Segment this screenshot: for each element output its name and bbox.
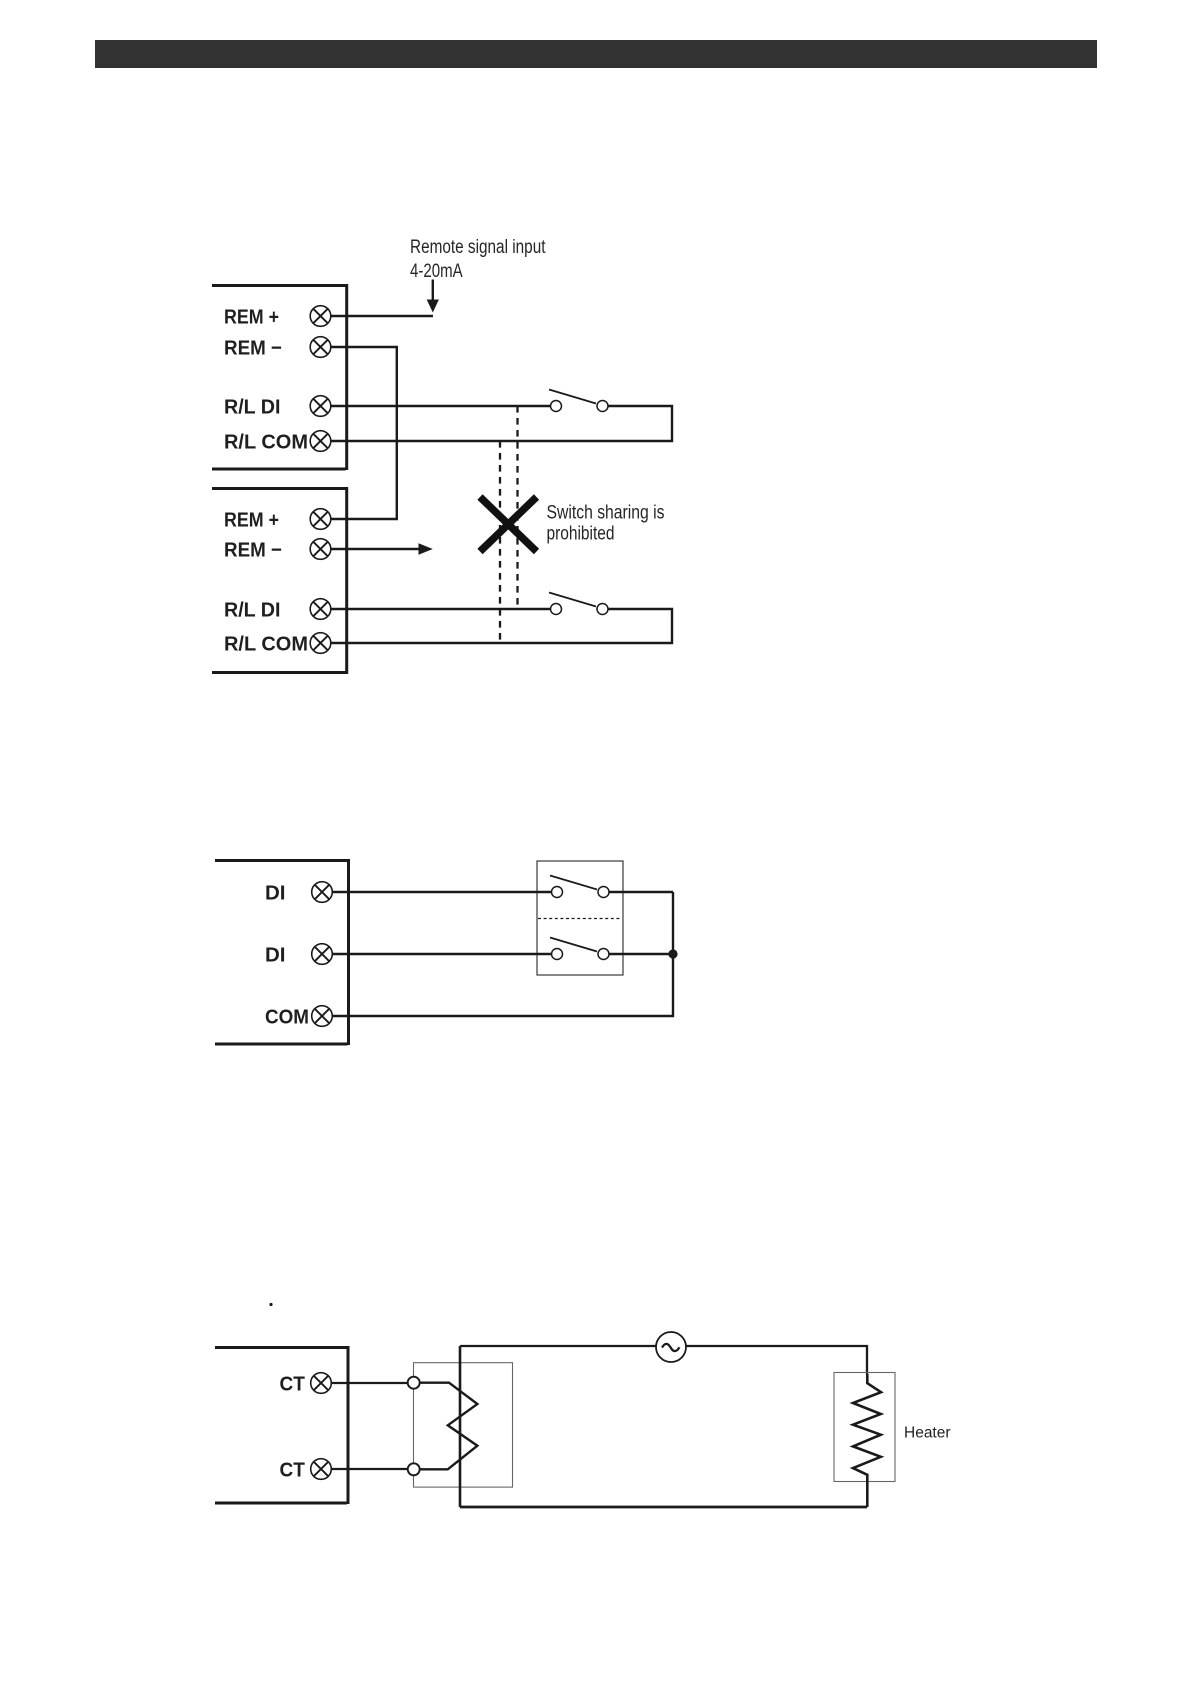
wire DI1 to S3: [332, 891, 551, 893]
wire switch S1 to R/L COM block1: [331, 406, 672, 441]
prohibition X mark: [480, 497, 537, 552]
heater box outline: [834, 1373, 895, 1482]
svg-text:DI: DI: [265, 943, 286, 966]
svg-text:REM −: REM −: [224, 336, 282, 359]
switch S4: [550, 938, 609, 960]
CT contact top: [408, 1377, 420, 1389]
svg-text:REM +: REM +: [224, 508, 279, 531]
svg-text:Heater: Heater: [904, 1425, 951, 1442]
wire node vertical and COM return: [332, 892, 673, 1016]
svg-text:Remote signal input: Remote signal input: [410, 237, 546, 258]
wire CT2 to transformer: [331, 1468, 409, 1470]
svg-text:prohibited: prohibited: [547, 524, 615, 545]
wire S3 to node: [609, 891, 673, 893]
header bar: [95, 40, 1097, 68]
CT secondary winding: [420, 1383, 478, 1470]
dotted separator in switch box: [538, 918, 622, 920]
terminal R/L DI block2: [224, 598, 331, 621]
wire R/L DI block2 to switch S2: [331, 608, 551, 610]
svg-text:R/L COM: R/L COM: [224, 632, 308, 655]
terminal R/L DI block1: [224, 395, 331, 418]
terminal REM+ block1: [224, 305, 331, 328]
dashed shared-wire right: [516, 406, 518, 610]
controller block 3 outline: [215, 859, 349, 1045]
bullet dot: [269, 1303, 272, 1306]
arrow: remote signal input into REM+: [427, 280, 439, 313]
terminal DI 2: [265, 943, 332, 966]
wire S4 to node: [609, 953, 673, 955]
svg-text:R/L DI: R/L DI: [224, 598, 281, 621]
dashed shared-wire left: [499, 441, 501, 644]
terminal CT 2: [280, 1458, 332, 1481]
annotation: Remote signal input 4-20mA: [410, 237, 546, 282]
wire CT1 to transformer: [331, 1382, 409, 1384]
wire DI2 to S4: [332, 953, 551, 955]
svg-text:CT: CT: [280, 1372, 306, 1395]
switch S2: [549, 593, 608, 615]
terminal REM- block1: [224, 336, 331, 359]
annotation: Switch sharing is prohibited: [547, 503, 665, 545]
arrow wire REM- block2: [331, 543, 433, 555]
switch S3: [550, 876, 609, 898]
svg-text:COM: COM: [265, 1005, 309, 1028]
terminal R/L COM block1: [224, 430, 331, 453]
switch box outline: [537, 861, 623, 975]
CT contact bottom: [408, 1463, 420, 1475]
switch S1: [549, 390, 608, 412]
wire REM- block1 to REM+ block2: [331, 347, 397, 519]
wire switch S2 to R/L COM block2: [331, 609, 672, 643]
controller block 4 outline: [215, 1346, 348, 1504]
CT box outline: [414, 1363, 513, 1487]
terminal COM: [265, 1005, 332, 1028]
wire R/L DI block1 to switch S1: [331, 405, 551, 407]
svg-text:R/L DI: R/L DI: [224, 395, 281, 418]
wire top to AC source and heater: [460, 1346, 867, 1374]
terminal REM+ block2: [224, 508, 331, 531]
terminal R/L COM block2: [224, 632, 331, 655]
terminal DI 1: [265, 881, 332, 904]
svg-text:Switch sharing is: Switch sharing is: [547, 503, 665, 524]
terminal REM- block2: [224, 538, 331, 561]
controller block 1 outline: [212, 284, 347, 470]
svg-text:4-20mA: 4-20mA: [410, 261, 463, 282]
terminal CT 1: [280, 1372, 332, 1395]
wire REM+ block1 to arrow: [331, 315, 433, 317]
svg-text:CT: CT: [280, 1458, 306, 1481]
svg-text:DI: DI: [265, 881, 286, 904]
controller block 2 outline: [212, 487, 347, 674]
wire bottom return: [460, 1506, 867, 1509]
svg-text:R/L COM: R/L COM: [224, 430, 308, 453]
svg-text:REM −: REM −: [224, 538, 282, 561]
AC source: [656, 1332, 686, 1362]
primary conductor: [459, 1346, 462, 1507]
svg-text:REM +: REM +: [224, 305, 279, 328]
junction node: [668, 949, 677, 958]
heater resistor: [853, 1374, 881, 1507]
